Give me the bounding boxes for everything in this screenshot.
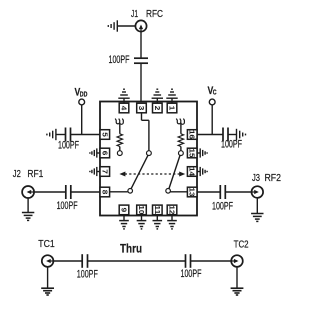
svg-text:9: 9 <box>120 208 129 213</box>
svg-text:J1: J1 <box>131 9 138 20</box>
svg-text:3: 3 <box>137 106 146 111</box>
svg-text:C: C <box>213 90 217 97</box>
svg-text:7: 7 <box>100 169 109 174</box>
svg-text:100PF: 100PF <box>58 139 79 151</box>
svg-text:100PF: 100PF <box>57 200 78 212</box>
svg-text:RF2: RF2 <box>265 173 282 184</box>
svg-text:RFC: RFC <box>146 9 163 20</box>
svg-text:12: 12 <box>168 205 177 214</box>
svg-text:100PF: 100PF <box>181 268 202 280</box>
svg-text:14: 14 <box>188 167 197 177</box>
svg-text:DD: DD <box>80 91 88 98</box>
svg-text:J2: J2 <box>13 169 21 180</box>
svg-text:100PF: 100PF <box>77 269 98 281</box>
svg-text:6: 6 <box>100 151 109 156</box>
svg-text:TC1: TC1 <box>38 239 55 250</box>
svg-text:15: 15 <box>188 149 197 159</box>
svg-text:11: 11 <box>153 205 162 215</box>
svg-text:100PF: 100PF <box>109 54 130 66</box>
svg-text:100PF: 100PF <box>212 200 233 212</box>
svg-text:J3: J3 <box>252 173 260 184</box>
svg-text:16: 16 <box>188 130 197 139</box>
svg-text:2: 2 <box>153 106 162 111</box>
svg-text:RF1: RF1 <box>27 169 43 180</box>
svg-text:Thru: Thru <box>120 242 142 256</box>
svg-text:TC2: TC2 <box>234 240 249 251</box>
svg-text:100PF: 100PF <box>221 138 242 150</box>
svg-text:10: 10 <box>137 205 146 214</box>
svg-text:8: 8 <box>100 190 109 195</box>
svg-text:13: 13 <box>188 188 197 197</box>
